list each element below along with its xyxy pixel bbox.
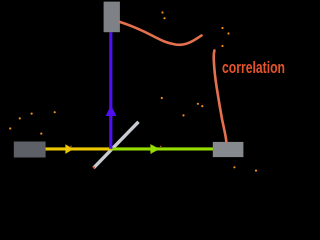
svg-text:correlation: correlation [222,58,285,77]
